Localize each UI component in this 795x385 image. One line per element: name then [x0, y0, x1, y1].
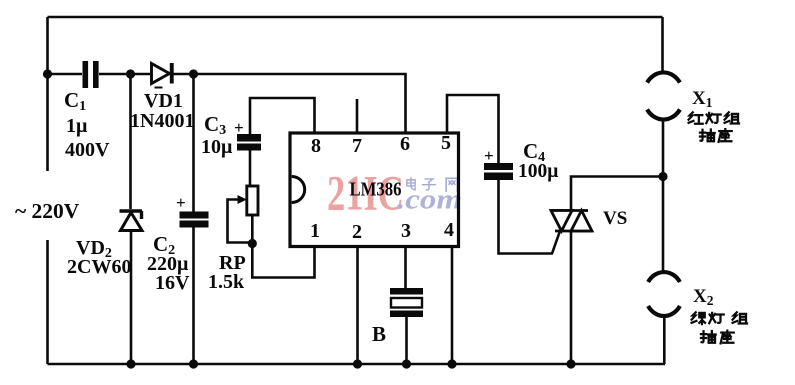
label X2 green lamp group: [692, 312, 747, 324]
svg-text:5: 5: [441, 132, 451, 154]
node VD1-C2: [189, 69, 198, 78]
U1 notch: [292, 177, 305, 203]
wire pin 7 stub: [356, 99, 359, 133]
wire pin 4 down: [451, 247, 454, 365]
wire B bottom lead: [405, 317, 408, 364]
wire C4 to triac gate: [499, 180, 561, 254]
wire C2 bottom lead: [192, 228, 195, 365]
svg-text:~ 220V: ~ 220V: [15, 199, 80, 223]
svg-text:3: 3: [401, 220, 411, 242]
op-amp U1 LM386 body: [290, 133, 459, 247]
wire X2 bottom lead: [663, 315, 666, 364]
node pin4 rail: [447, 359, 456, 368]
wire VD2 top lead: [129, 74, 132, 209]
svg-text:+: +: [484, 146, 494, 165]
svg-text:1: 1: [310, 220, 320, 242]
piezo sounder B: [390, 288, 423, 317]
label X1 red lamp group: [689, 112, 739, 124]
svg-text:B: B: [372, 322, 386, 346]
svg-text:7: 7: [352, 135, 362, 157]
wire RP wiper return: [228, 200, 253, 243]
svg-text:4: 4: [444, 219, 454, 241]
wire pin 2 down: [356, 247, 359, 365]
svg-text:1.5k: 1.5k: [208, 271, 245, 293]
wire C1 left lead: [48, 73, 83, 76]
wire C1 to VD1: [99, 73, 150, 76]
node VD2 bottom rail: [126, 359, 135, 368]
svg-text:10μ: 10μ: [201, 136, 233, 158]
socket X2: [648, 272, 680, 316]
triac VS: [551, 211, 592, 232]
zener VD2: [120, 211, 143, 231]
capacitor C4: [484, 163, 513, 180]
wire pin 5 to C4: [447, 95, 499, 163]
node pin2 rail: [353, 359, 362, 368]
node RP wiper join: [248, 239, 257, 248]
svg-text:+: +: [176, 193, 186, 212]
node C2 bottom rail: [189, 359, 198, 368]
wire VD1 to pin 6: [172, 74, 406, 133]
diode VD1: [152, 63, 174, 89]
wire X1 top lead: [661, 17, 664, 74]
capacitor C3: [237, 134, 261, 151]
svg-text:100μ: 100μ: [518, 161, 558, 182]
svg-text:2: 2: [352, 221, 362, 243]
node B rail: [402, 359, 411, 368]
wire C2 top lead: [192, 74, 195, 212]
wire left AC lower branch: [46, 240, 49, 364]
svg-text:6: 6: [400, 133, 410, 155]
svg-text:1μ: 1μ: [66, 115, 88, 137]
wire C3 to RP: [249, 151, 252, 187]
wire triac bottom lead: [570, 231, 573, 364]
node X1 bottom junction: [658, 172, 667, 181]
capacitor C1: [83, 61, 99, 88]
wire pin 3 to B: [404, 247, 407, 289]
svg-text:1N4001: 1N4001: [130, 110, 194, 132]
wire bottom rail: [48, 363, 666, 366]
node VD2 top: [126, 69, 135, 78]
node triac rail: [566, 359, 575, 368]
wire C3 top lead to pin 8: [250, 98, 315, 134]
wire triac top to X rail: [571, 177, 663, 211]
label X1 socket: [700, 129, 732, 142]
svg-text:400V: 400V: [65, 139, 110, 161]
socket X1: [647, 72, 680, 119]
wire top rail: [48, 16, 663, 19]
svg-text:+: +: [234, 118, 244, 137]
watermark dianziwang: [407, 178, 458, 191]
wire VD2 bottom lead: [130, 231, 133, 364]
svg-text:16V: 16V: [155, 272, 190, 294]
wire X1 to X2: [662, 119, 665, 273]
svg-text:VS: VS: [603, 208, 627, 229]
svg-text:2CW60: 2CW60: [67, 256, 131, 278]
svg-text:8: 8: [311, 135, 321, 157]
svg-text:VD1: VD1: [144, 90, 183, 112]
wire left AC upper branch: [46, 17, 49, 171]
capacitor C2: [180, 212, 209, 228]
potentiometer RP: [238, 186, 259, 215]
node AC-C1 junction: [43, 69, 52, 78]
wire RP bottom to pin 1: [252, 215, 314, 278]
svg-text:LM386: LM386: [350, 179, 402, 201]
label X2 socket: [701, 331, 734, 344]
